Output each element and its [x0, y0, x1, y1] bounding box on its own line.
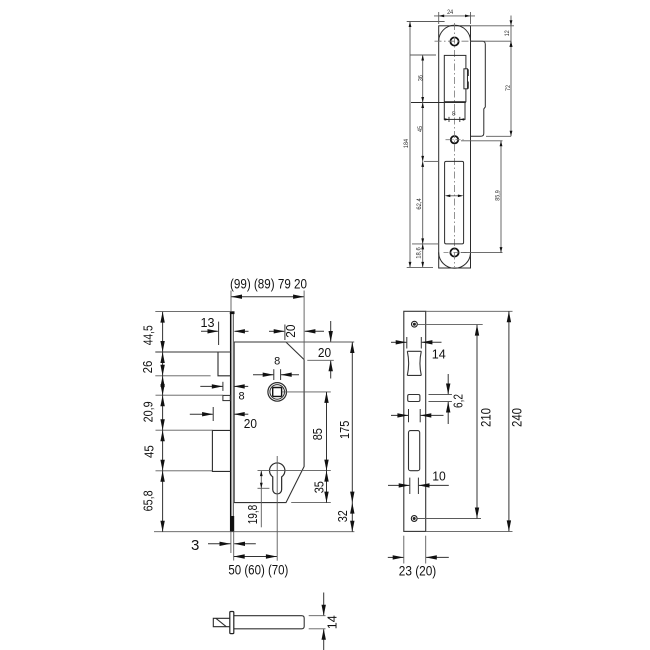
svg-text:18,6: 18,6	[416, 247, 423, 259]
svg-text:45: 45	[142, 445, 157, 458]
svg-text:62,4: 62,4	[416, 198, 423, 210]
svg-text:50 (60) (70): 50 (60) (70)	[228, 562, 288, 578]
svg-text:6,2: 6,2	[451, 394, 465, 408]
svg-text:240: 240	[509, 408, 525, 427]
svg-text:14: 14	[324, 615, 339, 629]
svg-text:12: 12	[504, 30, 511, 36]
svg-text:19,8: 19,8	[245, 505, 260, 525]
svg-text:8: 8	[274, 355, 280, 367]
svg-text:8: 8	[452, 111, 456, 118]
svg-text:14: 14	[432, 347, 446, 362]
svg-text:32: 32	[335, 510, 350, 522]
svg-text:(99) (89) 79 20: (99) (89) 79 20	[230, 276, 307, 292]
svg-text:20,9: 20,9	[141, 401, 156, 422]
svg-text:10: 10	[432, 468, 446, 483]
svg-text:36: 36	[417, 75, 424, 81]
svg-text:184: 184	[403, 139, 410, 149]
svg-text:85,9: 85,9	[495, 190, 502, 201]
svg-text:8: 8	[239, 391, 245, 403]
svg-text:35: 35	[311, 481, 326, 493]
svg-text:20: 20	[244, 416, 257, 431]
svg-text:23 (20): 23 (20)	[399, 562, 437, 578]
svg-text:3: 3	[191, 537, 199, 554]
svg-text:210: 210	[478, 408, 494, 427]
svg-text:24: 24	[447, 9, 453, 16]
svg-text:20: 20	[283, 325, 298, 338]
svg-text:65,8: 65,8	[141, 490, 156, 511]
svg-text:72: 72	[505, 85, 512, 91]
svg-text:13: 13	[201, 315, 215, 330]
svg-text:175: 175	[337, 421, 352, 439]
svg-text:44,5: 44,5	[140, 325, 155, 345]
svg-text:45: 45	[417, 126, 424, 132]
svg-text:20: 20	[318, 345, 331, 360]
svg-text:85: 85	[310, 428, 325, 440]
svg-text:26: 26	[140, 361, 155, 374]
